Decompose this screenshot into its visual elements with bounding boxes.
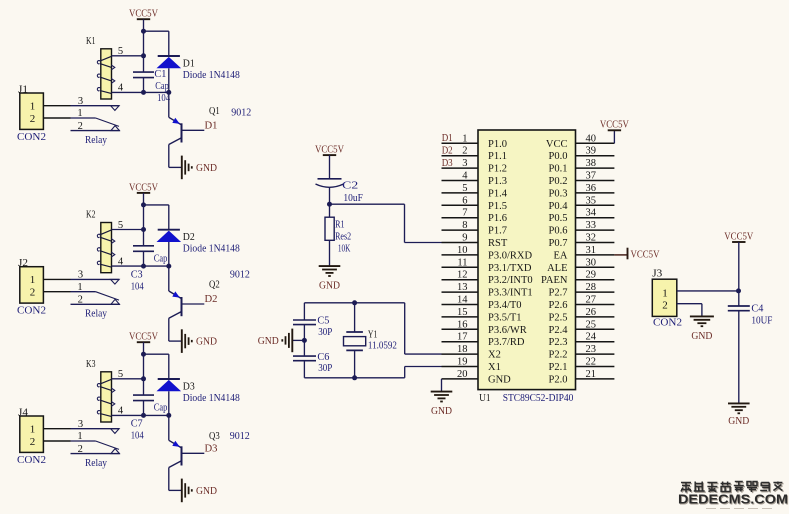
wire base Q1 to net D1 [182,129,204,131]
svg-text:P3.2/INT0: P3.2/INT0 [488,275,533,286]
wire branch to diode D3 [144,353,169,355]
svg-text:P1.0: P1.0 [488,139,507,150]
relay K2 contact pin 3 [71,270,120,285]
wire U1 pin20 to ground [441,379,443,392]
svg-text:8: 8 [462,220,467,231]
svg-text:24: 24 [586,332,597,343]
svg-text:K2: K2 [86,210,96,221]
svg-text:1: 1 [77,431,82,442]
svg-text:P1.4: P1.4 [488,188,508,199]
svg-text:39: 39 [586,146,597,157]
wire J3 pin1 to VCC node [677,290,739,292]
svg-text:11: 11 [457,257,467,268]
svg-text:VCC5V: VCC5V [129,9,158,20]
svg-text:C5: C5 [317,316,329,327]
svg-text:VCC5V: VCC5V [600,120,629,131]
svg-text:X1: X1 [488,362,501,373]
svg-text:VCC5V: VCC5V [129,332,158,343]
svg-text:5: 5 [118,46,123,57]
svg-text:1: 1 [662,287,668,299]
svg-text:22: 22 [586,357,597,368]
svg-text:30P: 30P [318,363,332,374]
U1 pin 24 (P2.3) [549,332,615,349]
U1 pin 7 (P1.6) [442,208,507,225]
svg-text:12: 12 [457,270,468,281]
crystal Y1 11.0592 [344,303,366,378]
U1 pin 15 (P3.5/T1) [442,307,522,324]
junction crystal bottom [352,375,357,380]
junction K3 branch [141,352,146,357]
ground GND below C4 [728,403,750,427]
svg-text:31: 31 [586,245,597,256]
svg-text:D3: D3 [183,381,195,392]
svg-text:STC89C52-DIP40: STC89C52-DIP40 [503,393,574,404]
wire base Q2 to net D2 [182,303,204,305]
wire branch to diode D1 [144,30,169,32]
svg-text:CON2: CON2 [17,455,46,466]
power VCC5V K3 block [129,332,158,343]
svg-text:3: 3 [462,158,467,169]
relay K1 contact pin 1 armature [71,108,120,126]
wire U1 pin31 to VCC [614,254,627,256]
svg-text:K1: K1 [86,36,96,47]
capacitor C6 30P [293,356,316,361]
svg-text:P2.4: P2.4 [549,325,569,336]
svg-text:VCC: VCC [546,139,568,150]
svg-text:30: 30 [586,257,597,268]
wire J2 pin1 to relay contact 3 [43,278,70,280]
svg-text:34: 34 [586,208,597,219]
K2 pin 4 [112,265,169,267]
svg-text:GND: GND [691,331,712,342]
wire VCC down to C4 [738,242,740,306]
svg-text:3: 3 [78,419,83,430]
svg-text:30P: 30P [318,327,332,338]
svg-text:DEDECMS.COM: DEDECMS.COM [678,493,788,507]
svg-text:P1.2: P1.2 [488,164,507,175]
wire collector Q1 to ground [168,145,170,168]
power VCC5V at U1 pin40 [600,120,629,131]
svg-text:P2.1: P2.1 [549,362,568,373]
wire branch to diode D2 [144,204,169,206]
wire VCC rail K3 [143,342,145,395]
relay K2 coil [86,210,115,273]
svg-text:CON2: CON2 [17,132,46,143]
wire to crystal ground [293,339,305,341]
svg-text:15: 15 [457,307,468,318]
svg-text:9: 9 [462,233,467,244]
svg-text:J3: J3 [652,269,662,280]
svg-text:2: 2 [78,295,83,306]
wire J1 pin2 to relay contact 1 [43,117,70,119]
svg-text:P1.7: P1.7 [488,226,507,237]
U1 pin 2 (P1.1) [442,146,507,163]
wire VCC rail K2 [143,193,145,246]
svg-text:P2.3: P2.3 [549,337,568,348]
ground GND below R1 [319,266,341,292]
svg-text:P0.7: P0.7 [549,238,568,249]
junction K3 pin4 left [141,413,146,418]
junction K1 pin5 [141,53,146,58]
svg-text:11.0592: 11.0592 [368,341,397,352]
svg-text:D1: D1 [183,58,195,69]
svg-text:Q3: Q3 [209,431,220,442]
U1 pin 1 (P1.0) [442,133,507,150]
relay K1 contact pin 3 [71,96,120,111]
svg-text:P0.6: P0.6 [549,226,568,237]
junction RST node [327,202,332,207]
svg-text:Q1: Q1 [209,106,220,117]
transistor Q2 9012 PNP [169,266,182,318]
svg-text:1: 1 [77,282,82,293]
ground GND at Q3 [182,479,218,503]
svg-text:26: 26 [586,307,597,318]
svg-text:9012: 9012 [230,431,250,442]
svg-text:D2: D2 [442,146,453,157]
connector J3 CON2 [652,269,682,329]
svg-text:P2.2: P2.2 [549,350,568,361]
svg-text:104: 104 [131,431,145,442]
svg-text:VCC5V: VCC5V [315,145,344,156]
svg-text:GND: GND [196,163,217,174]
svg-text:1: 1 [77,108,82,119]
svg-text:P0.0: P0.0 [549,151,568,162]
svg-text:D2: D2 [205,294,218,305]
ground GND at Q2 [182,329,218,353]
svg-text:20: 20 [457,369,468,380]
svg-text:Relay: Relay [85,458,108,469]
U1 pin 34 (P0.5) [549,208,615,225]
junction K2 pin4 right [166,264,171,269]
svg-text:104: 104 [131,281,145,292]
svg-text:P3.5/T1: P3.5/T1 [488,312,522,323]
svg-text:C3: C3 [131,269,143,280]
relay K3 coil [86,359,115,422]
svg-text:2: 2 [30,287,36,299]
svg-text:GND: GND [319,281,340,292]
wire crystal bottom rail [304,377,404,379]
svg-text:P3.0/RXD: P3.0/RXD [488,250,532,261]
svg-text:2: 2 [662,300,668,312]
svg-text:23: 23 [586,344,597,355]
svg-text:2: 2 [30,436,36,448]
svg-text:Relay: Relay [85,309,108,320]
junction K1 branch [141,29,146,34]
svg-text:P0.2: P0.2 [549,176,568,187]
capacitor C1 [133,72,154,78]
svg-text:36: 36 [586,183,597,194]
svg-text:CON2: CON2 [17,306,46,317]
svg-text:37: 37 [586,171,597,182]
capacitor C5 30P [293,320,316,325]
svg-text:25: 25 [586,319,597,330]
junction K3 pin5 [141,376,146,381]
power VCC5V right [724,231,753,242]
svg-text:Relay: Relay [85,135,108,146]
U1 pin 14 (P3.4/T0) [442,295,522,312]
junction K1 pin4 left [141,90,146,95]
svg-text:1: 1 [30,101,36,113]
svg-text:6: 6 [462,195,467,206]
K3 pin 4 [112,414,169,416]
U1 pin 33 (P0.6) [549,220,615,237]
svg-text:Res2: Res2 [335,231,351,242]
svg-text:P2.7: P2.7 [549,288,568,299]
junction J3 pin1 node [736,288,741,293]
U1 pin 9 (RST) [442,233,508,250]
resistor R1 Res2 10K [325,204,334,266]
wire J4 pin1 to relay contact 3 [43,428,70,430]
svg-text:16: 16 [457,319,468,330]
svg-text:32: 32 [586,233,597,244]
svg-text:D1: D1 [442,133,453,144]
svg-text:Diode 1N4148: Diode 1N4148 [183,393,240,404]
U1 pin 27 (P2.6) [549,295,615,312]
svg-text:ALE: ALE [547,263,567,274]
svg-text:C7: C7 [131,419,143,430]
wire X2 to U1 pin18 [404,303,406,354]
svg-text:R1: R1 [335,219,345,230]
svg-text:35: 35 [586,195,597,206]
U1 pin 6 (P1.5) [442,195,507,212]
U1 pin 29 (PAEN) [541,270,614,287]
junction crystal top [352,300,357,305]
svg-text:2: 2 [78,444,83,455]
svg-text:GND: GND [196,486,217,497]
svg-text:10: 10 [457,245,468,256]
watermark DEDECMS.COM [678,493,789,508]
U1 pin 25 (P2.4) [549,319,615,336]
junction K1 pin4 right [166,90,171,95]
U1 pin 30 (ALE) [547,257,614,274]
svg-text:3: 3 [78,270,83,281]
svg-text:13: 13 [457,282,468,293]
wire collector Q2 to ground [168,318,170,341]
svg-text:K3: K3 [86,359,96,370]
wire RST node to U1 pin9 [330,203,405,205]
wire J4 pin2 to relay contact 1 [43,440,70,442]
svg-text:D1: D1 [205,120,218,131]
svg-text:27: 27 [586,295,597,306]
wire J2 pin2 to relay contact 1 [43,291,70,293]
svg-text:P1.6: P1.6 [488,213,507,224]
svg-text:9012: 9012 [230,270,250,281]
U1 pin 18 (X2) [442,344,501,361]
svg-text:P0.3: P0.3 [549,188,568,199]
U1 pin 38 (P0.1) [549,158,615,175]
svg-text:GND: GND [728,416,749,427]
wire J3 pin2 to ground [677,303,702,305]
ground GND at U1 pin20 [431,392,453,418]
U1 pin 35 (P0.4) [549,195,615,212]
wire base Q3 to net D3 [182,452,204,454]
relay K3 contact pin 3 [71,419,120,434]
diode D3 1N4148 [157,379,182,415]
wire VCC rail K1 [143,19,145,72]
svg-text:P1.5: P1.5 [488,201,507,212]
svg-text:3: 3 [78,96,83,107]
junction K3 pin4 right [166,413,171,418]
U1 pin 5 (P1.4) [442,183,508,200]
wire crystal top rail [304,302,404,304]
relay K2 contact pin 2 [71,295,120,306]
transistor Q1 9012 PNP [169,92,182,144]
U1 pin 32 (P0.7) [549,233,615,250]
U1 pin 39 (P0.0) [549,146,615,163]
svg-text:33: 33 [586,220,597,231]
svg-text:2: 2 [78,121,83,132]
svg-text:D3: D3 [205,443,218,454]
capacitor C3 [133,246,154,252]
svg-text:GND: GND [488,374,511,385]
U1 pin 31 (EA) [554,245,615,262]
svg-text:21: 21 [586,369,597,380]
U1 pin 22 (P2.1) [549,357,615,374]
svg-text:10UF: 10UF [751,316,772,327]
svg-text:40: 40 [586,133,597,144]
U1 pin 10 (P3.0/RXD) [442,245,533,262]
svg-text:VCC5V: VCC5V [724,231,753,242]
diode D1 1N4148 [157,56,182,92]
svg-text:7: 7 [462,208,467,219]
U1 pin 17 (P3.7/RD) [442,332,525,349]
svg-text:5: 5 [118,369,123,380]
connector J2 CON2 [17,258,46,317]
U1 pin 13 (P3.3/INT1) [442,282,533,299]
svg-text:2: 2 [30,113,36,125]
svg-text:PAEN: PAEN [541,275,568,286]
svg-text:38: 38 [586,158,597,169]
svg-text:X2: X2 [488,350,501,361]
junction K2 branch [141,202,146,207]
ground GND at Q1 [182,156,218,180]
svg-text:VCC5V: VCC5V [129,182,158,193]
svg-text:9012: 9012 [231,107,251,118]
svg-text:Cap: Cap [154,403,168,414]
svg-text:GND: GND [258,336,279,347]
K3 pin 5 [112,378,144,380]
svg-text:17: 17 [457,332,468,343]
U1 pin 40 (VCC) [546,133,614,150]
K2 pin 5 [112,229,144,231]
svg-text:14: 14 [457,295,468,306]
svg-text:29: 29 [586,270,597,281]
capacitor C2 10uF [316,179,344,204]
svg-text:CON2: CON2 [653,318,682,329]
svg-text:4: 4 [462,171,468,182]
svg-text:C4: C4 [751,304,764,315]
svg-text:EA: EA [554,250,568,261]
svg-text:P3.4/T0: P3.4/T0 [488,300,522,311]
svg-text:10K: 10K [338,244,351,255]
U1 pin 19 (X1) [442,357,501,374]
svg-text:C2: C2 [342,181,358,192]
power VCC5V K2 block [129,182,158,193]
svg-text:P2.5: P2.5 [549,312,568,323]
svg-text:1: 1 [462,133,467,144]
svg-text:19: 19 [457,357,468,368]
svg-text:P2.0: P2.0 [549,374,568,385]
junction K2 pin4 left [141,264,146,269]
svg-text:1: 1 [30,424,36,436]
svg-text:Diode 1N4148: Diode 1N4148 [183,244,240,255]
watermark line1 fake CJK glyphs [681,482,784,494]
wire collector Q3 to ground [168,468,170,491]
U1 pin 3 (P1.2) [442,158,507,175]
svg-text:Cap: Cap [154,253,168,264]
svg-text:2: 2 [462,146,467,157]
op-amp U1 body STC89C52-DIP40 [478,130,576,390]
ground small at J3 [690,316,714,342]
svg-text:P0.5: P0.5 [549,213,568,224]
svg-text:Cap: Cap [155,81,169,92]
svg-text:C6: C6 [317,352,329,363]
capacitor C4 10UF [728,306,750,403]
U1 pin 28 (P2.7) [549,282,615,299]
svg-text:4: 4 [118,406,124,417]
relay K1 contact pin 2 [71,121,120,132]
K1 pin 5 [112,55,144,57]
K1 pin 4 [112,91,169,93]
diode D2 1N4148 [157,230,182,266]
U1 pin 11 (P3.1/TXD) [442,257,532,274]
connector J4 CON2 [17,407,46,466]
svg-text:P2.6: P2.6 [549,300,568,311]
svg-text:D3: D3 [442,158,453,169]
svg-text:P3.1/TXD: P3.1/TXD [488,263,532,274]
svg-text:P1.1: P1.1 [488,151,507,162]
svg-text:P0.1: P0.1 [549,164,568,175]
svg-text:P0.4: P0.4 [549,201,569,212]
power VCC5V reset [315,145,344,156]
U1 pin 20 (GND) [442,369,512,386]
connector J1 CON2 [17,84,46,143]
U1 pin 23 (P2.2) [549,344,615,361]
U1 pin 21 (P2.0) [549,369,615,386]
svg-text:VCC5V: VCC5V [631,250,660,261]
relay K1 coil [86,36,115,99]
junction K2 pin5 [141,227,146,232]
svg-text:10uF: 10uF [343,193,363,204]
svg-text:P3.3/INT1: P3.3/INT1 [488,288,533,299]
svg-text:Y1: Y1 [368,330,378,341]
watermark faint subtitle [706,508,772,510]
capacitor C7 [133,395,154,401]
ground GND at crystal caps [258,329,293,353]
wire J1 pin1 to relay contact 3 [43,105,70,107]
svg-text:U1: U1 [479,393,490,404]
svg-text:4: 4 [118,83,124,94]
wire U1 pin40 to VCC [613,130,615,143]
power VCC5V at EA [628,248,660,261]
svg-text:P1.3: P1.3 [488,176,507,187]
svg-text:Diode 1N4148: Diode 1N4148 [183,70,240,81]
svg-text:D2: D2 [183,232,195,243]
transistor Q3 9012 PNP [169,415,182,467]
wire VCC to C2 [329,155,331,179]
relay K3 contact pin 2 [71,444,120,455]
svg-text:GND: GND [196,337,217,348]
relay K3 contact pin 1 armature [71,431,120,449]
svg-text:18: 18 [457,344,468,355]
svg-text:28: 28 [586,282,597,293]
U1 pin 4 (P1.3) [442,171,507,188]
U1 pin 37 (P0.2) [549,171,615,188]
svg-text:4: 4 [118,256,124,267]
U1 pin 16 (P3.6/WR) [442,319,527,336]
U1 pin 36 (P0.3) [549,183,615,200]
svg-text:Q2: Q2 [209,279,220,290]
